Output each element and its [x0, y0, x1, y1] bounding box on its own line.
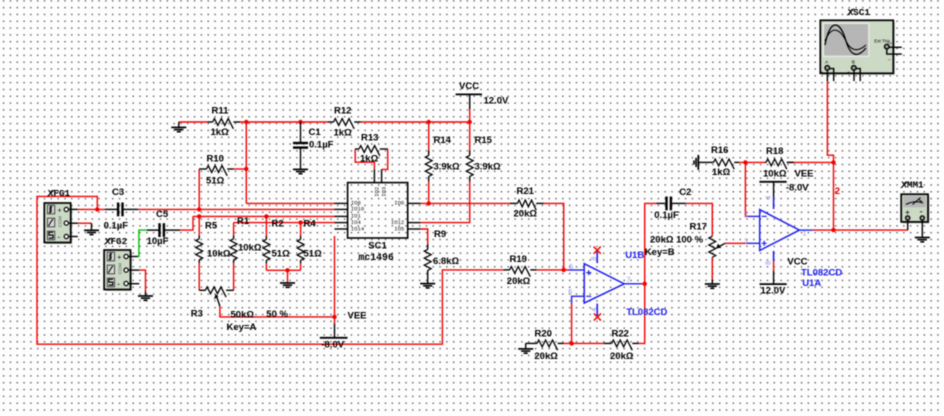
ground (XFG2 COM)	[145, 292, 147, 296]
svg-text:SC1: SC1	[368, 240, 387, 251]
wire	[300, 263, 302, 270]
svg-text:VCC: VCC	[459, 81, 479, 92]
wire	[564, 342, 604, 344]
svg-text:Key=A: Key=A	[227, 322, 257, 333]
svg-text:2: 2	[744, 212, 748, 219]
ground (R11 left)	[178, 122, 180, 127]
wire	[813, 229, 908, 231]
wire	[421, 181, 470, 222]
junction	[298, 220, 302, 224]
wire	[78, 222, 92, 224]
power VEE -8V (mc1496)	[334, 324, 336, 338]
junction	[569, 341, 573, 345]
no-connect X (U1B pin 4)	[594, 313, 601, 320]
wire	[240, 121, 328, 123]
svg-text:-8.0V: -8.0V	[786, 183, 809, 194]
svg-text:C5: C5	[156, 209, 169, 220]
svg-text:6: 6	[568, 289, 572, 296]
svg-text:20kΩ 100 %: 20kΩ 100 %	[650, 235, 704, 246]
junction	[197, 207, 201, 211]
svg-text:R2: R2	[272, 218, 284, 229]
capacitor C5	[147, 229, 159, 231]
svg-text:R3: R3	[191, 308, 203, 319]
op-amp U1A	[760, 210, 800, 251]
wire	[827, 81, 833, 230]
wire	[78, 208, 105, 210]
wire	[245, 122, 247, 203]
wire	[725, 242, 748, 244]
capacitor C3	[105, 208, 117, 210]
wire	[428, 181, 430, 203]
wire	[233, 168, 246, 170]
junction	[831, 160, 835, 164]
resistor R14	[428, 150, 430, 155]
svg-text:Key=B: Key=B	[645, 247, 675, 258]
ground (R2 R4)	[280, 283, 295, 287]
wire	[198, 263, 200, 290]
svg-text:TL082CD: TL082CD	[801, 267, 842, 278]
resistor R19	[504, 269, 510, 271]
svg-text:C1: C1	[309, 127, 322, 138]
wire	[469, 109, 471, 122]
power VCC 12V (U1A)	[773, 271, 775, 284]
svg-text:-: -	[58, 233, 61, 242]
wire	[428, 122, 430, 150]
ground (XMM1)	[915, 238, 930, 242]
wire	[234, 222, 335, 224]
junction	[831, 228, 835, 232]
svg-text:-: -	[117, 280, 120, 289]
svg-text:R5: R5	[205, 221, 218, 232]
svg-text:C3: C3	[112, 187, 124, 198]
wire	[711, 258, 713, 280]
wire	[537, 269, 569, 271]
svg-text:R14: R14	[434, 135, 452, 146]
resistor R13	[355, 148, 359, 150]
wire	[246, 202, 334, 204]
svg-text:VEE: VEE	[348, 310, 367, 321]
wire	[382, 149, 388, 169]
svg-text:20kΩ: 20kΩ	[514, 208, 538, 219]
svg-text:20kΩ: 20kΩ	[610, 351, 634, 362]
svg-text:IO2: IO2	[373, 187, 380, 197]
junction	[562, 268, 566, 272]
wire	[421, 229, 428, 244]
wire	[138, 230, 147, 256]
svg-text:1kΩ: 1kΩ	[360, 153, 379, 164]
op-amp U1B	[584, 264, 624, 303]
svg-text:+: +	[58, 207, 62, 214]
svg-text:R1: R1	[237, 216, 250, 227]
wire	[544, 203, 564, 270]
wire	[179, 121, 207, 123]
svg-text:TL082CD: TL082CD	[626, 307, 667, 318]
wire	[421, 202, 510, 204]
svg-text:0.1µF: 0.1µF	[309, 140, 334, 151]
svg-text:R12: R12	[334, 105, 351, 116]
svg-text:IO3: IO3	[381, 187, 388, 197]
wire	[266, 269, 300, 271]
junction	[643, 282, 647, 286]
junction	[95, 207, 99, 211]
svg-text:_: _	[887, 55, 891, 60]
resistor R15	[469, 150, 471, 155]
junction	[743, 160, 747, 164]
svg-text:1kΩ: 1kΩ	[712, 167, 731, 178]
ground (R20)	[518, 349, 533, 353]
wire	[641, 283, 644, 285]
wire	[233, 263, 235, 290]
power VEE -8V (U1A)	[759, 181, 786, 183]
resistor R18	[765, 161, 766, 163]
wire	[265, 263, 267, 270]
wire	[198, 216, 200, 235]
op-amp IC SC1 mc1496 body	[348, 183, 408, 238]
svg-text:+: +	[117, 254, 121, 261]
svg-text:51Ω: 51Ω	[206, 176, 225, 187]
svg-text:XFG1: XFG1	[48, 188, 71, 199]
svg-text:12.0V: 12.0V	[761, 285, 786, 296]
resistor R9	[427, 244, 429, 249]
svg-text:4: 4	[766, 196, 773, 200]
resistor R22	[604, 342, 612, 344]
wire	[180, 216, 193, 230]
ground (R17)	[711, 279, 713, 284]
svg-text:R11: R11	[212, 106, 230, 117]
svg-text:3: 3	[744, 238, 748, 245]
svg-text:R9: R9	[434, 229, 446, 240]
svg-text:B: B	[852, 60, 855, 66]
resistor R4	[300, 236, 302, 239]
wire	[220, 306, 335, 317]
junction	[332, 315, 336, 319]
wire	[739, 161, 765, 163]
svg-text:51Ω: 51Ω	[304, 248, 323, 259]
svg-text:IO14: IO14	[351, 225, 365, 232]
ground (C1)	[293, 169, 308, 173]
svg-text:10kΩ: 10kΩ	[238, 243, 262, 254]
junction	[244, 120, 248, 124]
junction	[427, 120, 431, 124]
svg-text:8: 8	[766, 261, 773, 265]
svg-text:8: 8	[591, 257, 598, 261]
svg-text:1kΩ: 1kΩ	[334, 127, 353, 138]
svg-text:+: +	[890, 41, 893, 46]
svg-text:XMM1: XMM1	[901, 180, 924, 191]
svg-text:R20: R20	[535, 329, 552, 340]
svg-text:20kΩ: 20kΩ	[534, 351, 558, 362]
svg-text:IO5: IO5	[394, 225, 404, 232]
svg-text:R22: R22	[612, 329, 629, 340]
ground (R16, rotated)	[694, 155, 698, 170]
wire	[139, 270, 145, 291]
wire	[37, 196, 504, 344]
svg-text:R13: R13	[361, 132, 378, 143]
junction	[468, 120, 472, 124]
svg-text:COM: COM	[58, 216, 64, 227]
svg-text:+: +	[821, 70, 824, 75]
svg-text:+: +	[847, 70, 850, 75]
resistor R20	[526, 342, 537, 344]
capacitor C1	[300, 122, 302, 143]
svg-text:R21: R21	[517, 186, 535, 197]
junction	[427, 201, 431, 205]
wire	[355, 149, 374, 169]
svg-text:5: 5	[569, 264, 573, 271]
svg-text:1: 1	[803, 231, 807, 238]
junction	[197, 214, 201, 218]
wire	[334, 236, 336, 324]
wire	[233, 223, 235, 236]
wire	[469, 122, 471, 150]
svg-text:2: 2	[835, 186, 840, 197]
ground (XFG1 COM)	[91, 223, 93, 230]
svg-text:51Ω: 51Ω	[272, 248, 291, 259]
svg-text:20kΩ: 20kΩ	[507, 276, 531, 287]
resistor R11	[207, 121, 213, 123]
svg-text:R17: R17	[690, 221, 707, 232]
wire	[645, 203, 657, 283]
wire	[361, 121, 470, 123]
svg-text:50 %: 50 %	[266, 309, 288, 320]
junction	[264, 214, 268, 218]
svg-text:COM: COM	[117, 263, 123, 274]
svg-text:R10: R10	[207, 153, 224, 164]
resistor R12	[328, 121, 334, 123]
svg-text:4: 4	[591, 308, 598, 312]
svg-text:6.8kΩ: 6.8kΩ	[433, 256, 459, 267]
ground (R9)	[420, 284, 435, 288]
svg-text:3.9kΩ: 3.9kΩ	[475, 162, 501, 173]
svg-text:mc1496: mc1496	[359, 252, 394, 263]
wire	[686, 203, 713, 236]
wire	[773, 261, 775, 271]
svg-text:-8.0V: -8.0V	[321, 340, 344, 351]
wire	[571, 304, 573, 344]
svg-text:10kΩ: 10kΩ	[207, 248, 231, 259]
svg-text:R19: R19	[510, 254, 527, 265]
svg-text:XSC1: XSC1	[848, 7, 871, 18]
svg-text:0.1µF: 0.1µF	[104, 221, 129, 232]
resistor R1	[233, 235, 235, 238]
svg-text:U1A: U1A	[802, 278, 821, 289]
potentiometer R3	[199, 289, 205, 291]
wire	[300, 223, 302, 236]
svg-text:Ext Trig: Ext Trig	[874, 38, 890, 43]
svg-text:IO6: IO6	[394, 200, 404, 207]
svg-text:XFG2: XFG2	[105, 236, 128, 247]
resistor R5	[198, 235, 200, 238]
svg-text:U1B: U1B	[625, 250, 644, 261]
wire	[639, 284, 645, 344]
svg-text:3.9kΩ: 3.9kΩ	[434, 162, 460, 173]
svg-text:12.0V: 12.0V	[484, 96, 509, 107]
wire	[745, 162, 748, 216]
wire	[265, 216, 267, 236]
svg-text:C2: C2	[679, 187, 691, 198]
svg-text:R16: R16	[711, 145, 728, 156]
potentiometer R17	[709, 236, 716, 257]
capacitor C2	[657, 202, 666, 204]
power VCC 12V (top)	[456, 93, 482, 95]
function generator XFG2	[106, 252, 132, 292]
svg-text:IO10: IO10	[351, 206, 365, 213]
junction	[285, 268, 289, 272]
resistor R2	[265, 236, 267, 239]
svg-text:R4: R4	[304, 218, 317, 229]
wire	[287, 270, 289, 283]
svg-text:10kΩ: 10kΩ	[763, 169, 787, 180]
junction	[298, 120, 302, 124]
multimeter XMM1	[903, 196, 930, 224]
resistor R21	[510, 202, 518, 204]
svg-text:10µF: 10µF	[147, 236, 169, 247]
wire	[198, 169, 200, 209]
svg-text:_: _	[861, 69, 865, 74]
svg-text:_: _	[834, 69, 838, 74]
oscilloscope XSC1	[822, 22, 895, 75]
wire	[138, 208, 334, 210]
wire	[193, 215, 335, 217]
no-connect X (U1B pin 8)	[594, 247, 601, 254]
svg-text:1kΩ: 1kΩ	[211, 127, 230, 138]
svg-text:R15: R15	[475, 135, 493, 146]
resistor R10	[199, 168, 206, 170]
wire	[787, 161, 834, 163]
svg-text:VEE: VEE	[795, 169, 814, 180]
svg-text:R18: R18	[766, 146, 783, 157]
junction	[244, 167, 248, 171]
resistor R16	[698, 161, 713, 163]
function generator XFG1	[46, 205, 72, 245]
svg-text:7: 7	[627, 277, 631, 284]
svg-text:0.1µF: 0.1µF	[654, 210, 679, 221]
svg-text:VCC: VCC	[787, 257, 807, 268]
svg-text:50kΩ: 50kΩ	[231, 310, 255, 321]
